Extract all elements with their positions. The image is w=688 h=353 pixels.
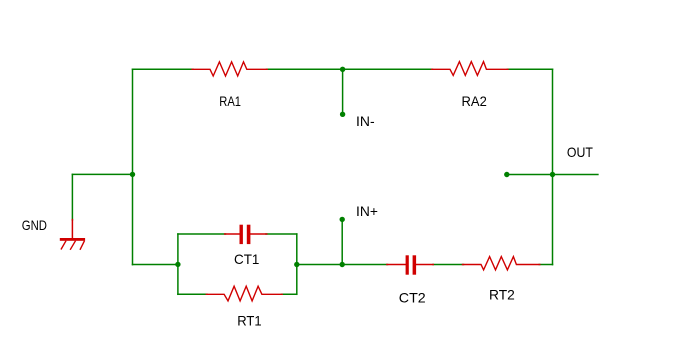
node dot IN+ endpoint bbox=[340, 217, 345, 222]
wire: IN+ stub bbox=[341, 219, 343, 264]
junction dot parallel box left bbox=[175, 262, 180, 267]
wire: right vertical rail bbox=[552, 69, 554, 264]
resistor R2 RA2 bbox=[432, 62, 508, 76]
wire: middle rail RT2 to right corner bbox=[539, 264, 552, 266]
svg-text:RT2: RT2 bbox=[489, 288, 515, 303]
ground red stub bbox=[71, 220, 73, 239]
capacitor C2 CT2 plate right bbox=[413, 255, 417, 274]
wire: parallel box left vertical bbox=[177, 234, 179, 294]
ground hatch 1 bbox=[61, 241, 65, 249]
wire: middle rail CT2 to RT2 bbox=[433, 264, 464, 266]
capacitor C2 CT2 plate left bbox=[406, 255, 409, 274]
wire: bottom-left horizontal bbox=[133, 264, 178, 266]
svg-text:IN-: IN- bbox=[356, 114, 375, 129]
junction dot OUT / right rail bbox=[550, 172, 555, 177]
junction dot IN- tap on top rail bbox=[340, 67, 345, 72]
ground hatch 3 bbox=[80, 241, 84, 249]
wire: IN- stub bbox=[342, 69, 344, 114]
svg-text:RA1: RA1 bbox=[219, 94, 241, 109]
ground bar bbox=[60, 238, 85, 241]
capacitor C1 CT1 lead right bbox=[250, 233, 266, 235]
wire: parallel box bottom branch green left bbox=[178, 293, 207, 295]
svg-text:GND: GND bbox=[22, 218, 47, 233]
wire: OUT horizontal bbox=[507, 174, 598, 176]
svg-text:RT1: RT1 bbox=[237, 313, 261, 328]
node dot OUT left endpoint bbox=[504, 172, 509, 177]
svg-text:RA2: RA2 bbox=[462, 94, 487, 109]
junction dot IN+ tap bbox=[340, 262, 345, 267]
wire: left vertical rail bbox=[132, 69, 134, 264]
wire: parallel box right vertical bbox=[296, 234, 298, 294]
wire: GND branch horizontal bbox=[72, 173, 132, 175]
capacitor C1 CT1 plate left bbox=[240, 225, 243, 244]
wire: top rail middle segment bbox=[267, 68, 433, 70]
wire: top rail left segment bbox=[133, 68, 194, 70]
svg-text:CT1: CT1 bbox=[234, 252, 259, 267]
ground hatch 2 bbox=[71, 241, 76, 249]
capacitor C1 CT1 plate right bbox=[247, 225, 251, 244]
capacitor C2 CT2 lead right bbox=[416, 264, 433, 266]
wire: parallel box top branch green left bbox=[178, 233, 226, 235]
resistor R1 RA1 bbox=[192, 62, 267, 76]
capacitor C2 CT2 lead left bbox=[387, 264, 406, 266]
svg-text:CT2: CT2 bbox=[399, 291, 426, 306]
junction dot parallel box right bbox=[294, 262, 299, 267]
wire: middle rail box to CT2 bbox=[297, 264, 388, 266]
svg-text:OUT: OUT bbox=[567, 145, 594, 160]
resistor R3 RT1 bbox=[206, 286, 282, 301]
wire: GND branch vertical green part bbox=[71, 174, 73, 220]
wire: parallel box top branch green right bbox=[266, 233, 297, 235]
svg-text:IN+: IN+ bbox=[356, 204, 378, 219]
wire: top rail right segment bbox=[507, 68, 552, 70]
wire: parallel box bottom branch green right bbox=[282, 293, 297, 295]
resistor R4 RT2 bbox=[463, 257, 540, 270]
junction dot GND / left rail bbox=[130, 172, 135, 177]
node dot IN- endpoint bbox=[340, 112, 345, 117]
capacitor C1 CT1 lead left bbox=[225, 233, 240, 235]
